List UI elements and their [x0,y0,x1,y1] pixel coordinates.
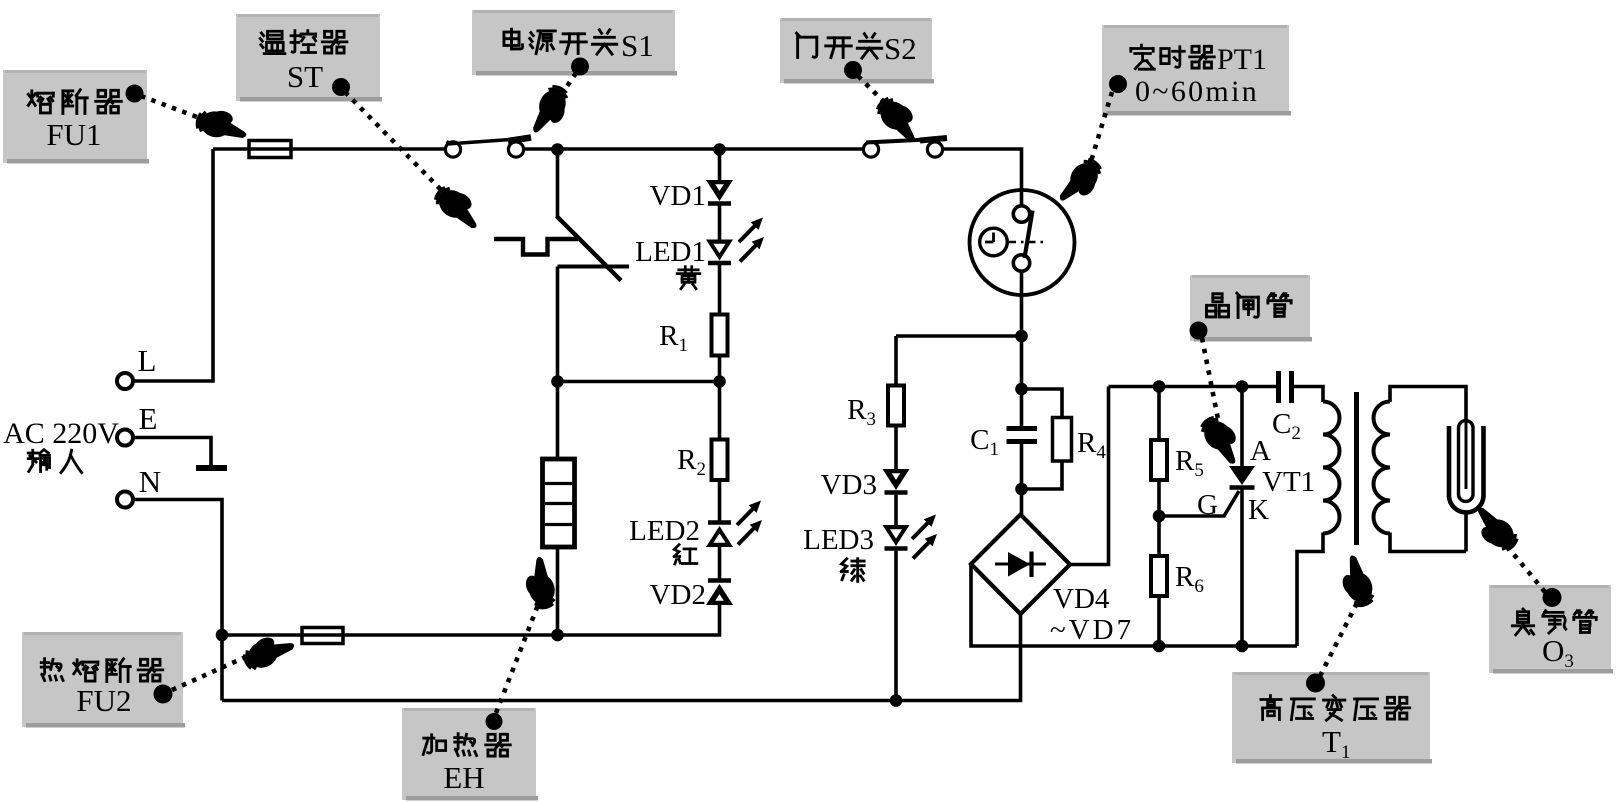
svg-text:VD4: VD4 [1053,583,1110,615]
terminal L [117,373,133,389]
wire N down-left side [133,500,222,701]
wire node to R3 chain [896,334,1022,338]
wire R3 chain top [894,336,898,386]
callout box O3 [1489,585,1613,674]
junction R6 bottom [1153,640,1166,653]
wire heater to FU2 line [556,547,560,635]
wire rung ST to VD1 chain [558,380,720,384]
svg-text:VD2: VD2 [650,579,706,611]
callout dot O3 [1543,588,1562,607]
wire secondary top to tube [1390,387,1466,421]
LED LED2 [708,520,731,525]
leader EH [496,605,538,713]
bridge inner diode [995,563,1046,566]
junction at S1 output node [551,143,564,156]
callout box T1 [1232,672,1432,764]
switch S1 contact right [508,142,523,157]
leader O3 [1506,545,1545,592]
wire timer bottom [1020,271,1024,336]
leader SCR [1202,338,1219,424]
wire plus rail [1109,385,1277,389]
junction at VD1 branch top [713,143,726,156]
junction VT1 cathode bottom [1236,640,1249,653]
hand EH [520,555,558,611]
timer PT1 linkage dashes [1009,241,1046,244]
hand S1 [527,83,573,141]
svg-text:LED3: LED3 [803,524,874,556]
wire top rail left segment [213,147,446,151]
callout text ST [260,31,285,53]
wire R6 bottom lead [1157,596,1161,646]
junction bottom rail R3 chain [890,694,903,707]
callout dot ST [332,78,350,96]
label LED2 red [674,545,697,564]
callout text T1 [1261,696,1281,720]
wire low rail up to primary [1297,533,1323,647]
hand T1 [1334,553,1378,610]
diode VD3 [883,469,910,490]
svg-text:FU2: FU2 [76,683,131,718]
heater EH element [543,459,575,547]
wire R5 to R6 [1157,480,1161,557]
junction heater bottom [551,629,564,642]
wire VD1 to LED1 [718,205,722,240]
junction ST-R1 rung left [551,375,564,388]
callout text FU2 [41,659,63,681]
leader PT1 [1089,92,1112,168]
hand ST [431,181,488,234]
junction timer-R3 node [1015,330,1028,343]
wire ST branch lower [556,267,560,460]
wire R4 branch top [1022,389,1063,418]
callout box FU1 [3,70,149,164]
leader FU1 [141,96,205,120]
wire VD3 to LED3 [894,494,898,526]
callout dot FU2 [154,685,173,704]
callout box ST [236,14,382,102]
callout text O3 [1512,609,1533,635]
switch S2 contact right [927,142,942,157]
hand PT1 [1054,155,1107,212]
svg-text:PT1: PT1 [1217,43,1267,76]
wire bottom rail [222,615,1021,701]
ozone tube center electrode [1465,387,1468,490]
wire VT1 cathode [1240,488,1244,647]
diode VD1 [706,180,733,201]
switch S2 contact left [863,142,878,157]
label LED3 green [841,559,864,582]
callout text EH [423,735,445,755]
callout dot PT1 [1109,75,1127,93]
hand FU1 [195,106,250,143]
callout box S1 [472,10,677,76]
callout dot S2 [844,61,862,79]
junction VT1 anode top [1236,380,1249,393]
svg-text:ST: ST [287,59,323,94]
svg-text:AC 220V: AC 220V [3,417,119,450]
wire bridge left to low rail [971,564,1297,646]
resistor R5 [1151,440,1167,480]
ozone tube outer envelope [1449,426,1484,512]
fuse FU1 [249,141,291,158]
callout box FU2 [22,632,185,728]
hand S2 [872,92,927,147]
wire E to earth [133,438,211,466]
diode VD2 [708,578,731,583]
wire ST branch upper [556,150,560,218]
callout text FU1 [28,91,53,113]
hand FU2 [240,628,298,674]
thermostat ST contact line [558,265,630,269]
svg-text:FU1: FU1 [46,117,101,152]
wire C1 bottom [1020,444,1024,515]
svg-text:LED2: LED2 [629,515,700,547]
callout box SCR [1190,275,1312,342]
wire gate lead [1159,491,1239,516]
wire R5 top lead [1157,387,1161,442]
transformer T1 secondary winding [1374,402,1391,435]
svg-text:LED1: LED1 [635,236,706,268]
callout dot T1 [1306,674,1325,693]
wire rail S2 to timer corner [942,149,1022,206]
terminal E [117,430,133,446]
label LED1 yellow [677,267,700,289]
wire R1 to junction [718,356,722,441]
resistor R6 [1151,556,1167,596]
wire R2 to LED2 [718,480,722,523]
leader FU2 [172,655,250,690]
thyristor VT1 [1229,466,1255,485]
junction C1 top node [1015,383,1028,396]
wire LED3 to bottom rail [894,549,898,701]
junction gate node [1153,510,1166,523]
wire L to top rail [133,149,213,381]
timer PT1 body circle [970,190,1075,295]
capacitor C2 [1276,371,1281,403]
callout dot FU1 [126,85,144,103]
earth bar at E [196,465,227,471]
thermostat ST blade [557,216,622,281]
hand O3 [1466,502,1522,556]
LED LED1 [706,240,733,261]
svg-text:A: A [1250,435,1271,467]
ozone tube bottom lead [1464,514,1468,552]
transformer T1 core [1354,392,1359,545]
callout box PT1 [1102,25,1291,116]
switch S1 contact left [445,142,460,157]
timer PT1 contact bottom [1013,255,1029,271]
junction C1 bottom node [1015,483,1028,496]
wire LED2 to VD2 [718,546,722,582]
svg-text:~VD7: ~VD7 [1050,614,1134,646]
callout text S1 [504,29,523,49]
callout box EH [402,708,538,801]
capacitor C1 [1007,426,1038,431]
timer PT1 lever [1025,211,1033,259]
svg-text:VD3: VD3 [821,469,877,501]
switch S2 lever [866,139,947,143]
transformer T1 primary winding [1323,402,1340,435]
junction N-FU2 node [216,629,229,642]
resistor R2 [712,440,728,481]
switch S1 lever [447,138,531,144]
svg-text:L: L [138,343,157,378]
bridge VD4-VD7 diamond [971,515,1070,615]
resistor R1 [712,315,728,356]
ozone tube inner electrode sheath [1459,421,1474,502]
callout dot EH [486,713,503,730]
svg-text:VD1: VD1 [650,180,706,212]
svg-text:S1: S1 [621,28,654,63]
wire VD2 to FU2 line corner [558,604,720,636]
wire VT1 anode [1240,387,1244,468]
svg-text:G: G [1197,489,1218,521]
wire bridge right to plus rail [1070,387,1109,565]
wire R3 to VD3 [894,426,898,471]
wire C2 to primary [1293,387,1323,403]
callout text S2 [796,33,816,57]
wire timer node down [1020,336,1024,427]
junction R5 top [1153,380,1166,393]
wire secondary bottom to tube [1390,533,1466,552]
timer PT1 contact top [1013,206,1029,222]
wire LED1 to R1 [718,263,722,315]
svg-text:S2: S2 [884,31,917,66]
fuse FU2 [302,628,343,644]
LED LED3 [883,525,910,546]
leader S1 [559,73,576,98]
thermostat ST bimetal step [494,239,578,255]
callout text PT1 [1131,45,1155,69]
svg-text:0~60min: 0~60min [1135,75,1259,108]
wire FU2 line [222,633,558,637]
callout dot S1 [571,58,589,76]
callout dot SCR [1190,322,1208,340]
timer PT1 clock face [980,228,1008,256]
hand SCR [1196,412,1249,469]
svg-text:EH: EH [443,760,484,795]
svg-text:E: E [139,401,158,436]
callout text SCR [1206,294,1228,317]
resistor R3 [888,386,904,426]
svg-text:N: N [139,464,161,499]
svg-text:VT1: VT1 [1262,466,1315,498]
junction R1-R2 node [713,375,726,388]
leader S2 [858,76,888,106]
leader T1 [1320,597,1360,676]
terminal N [117,492,133,508]
callout box S2 [780,18,934,84]
wire VD1 chain top [718,150,722,182]
wire R4 branch bottom [1022,461,1063,489]
leader ST [345,92,450,199]
wire rail S1 to S2 [523,147,864,151]
svg-text:K: K [1248,494,1269,526]
resistor R4 [1053,418,1072,462]
